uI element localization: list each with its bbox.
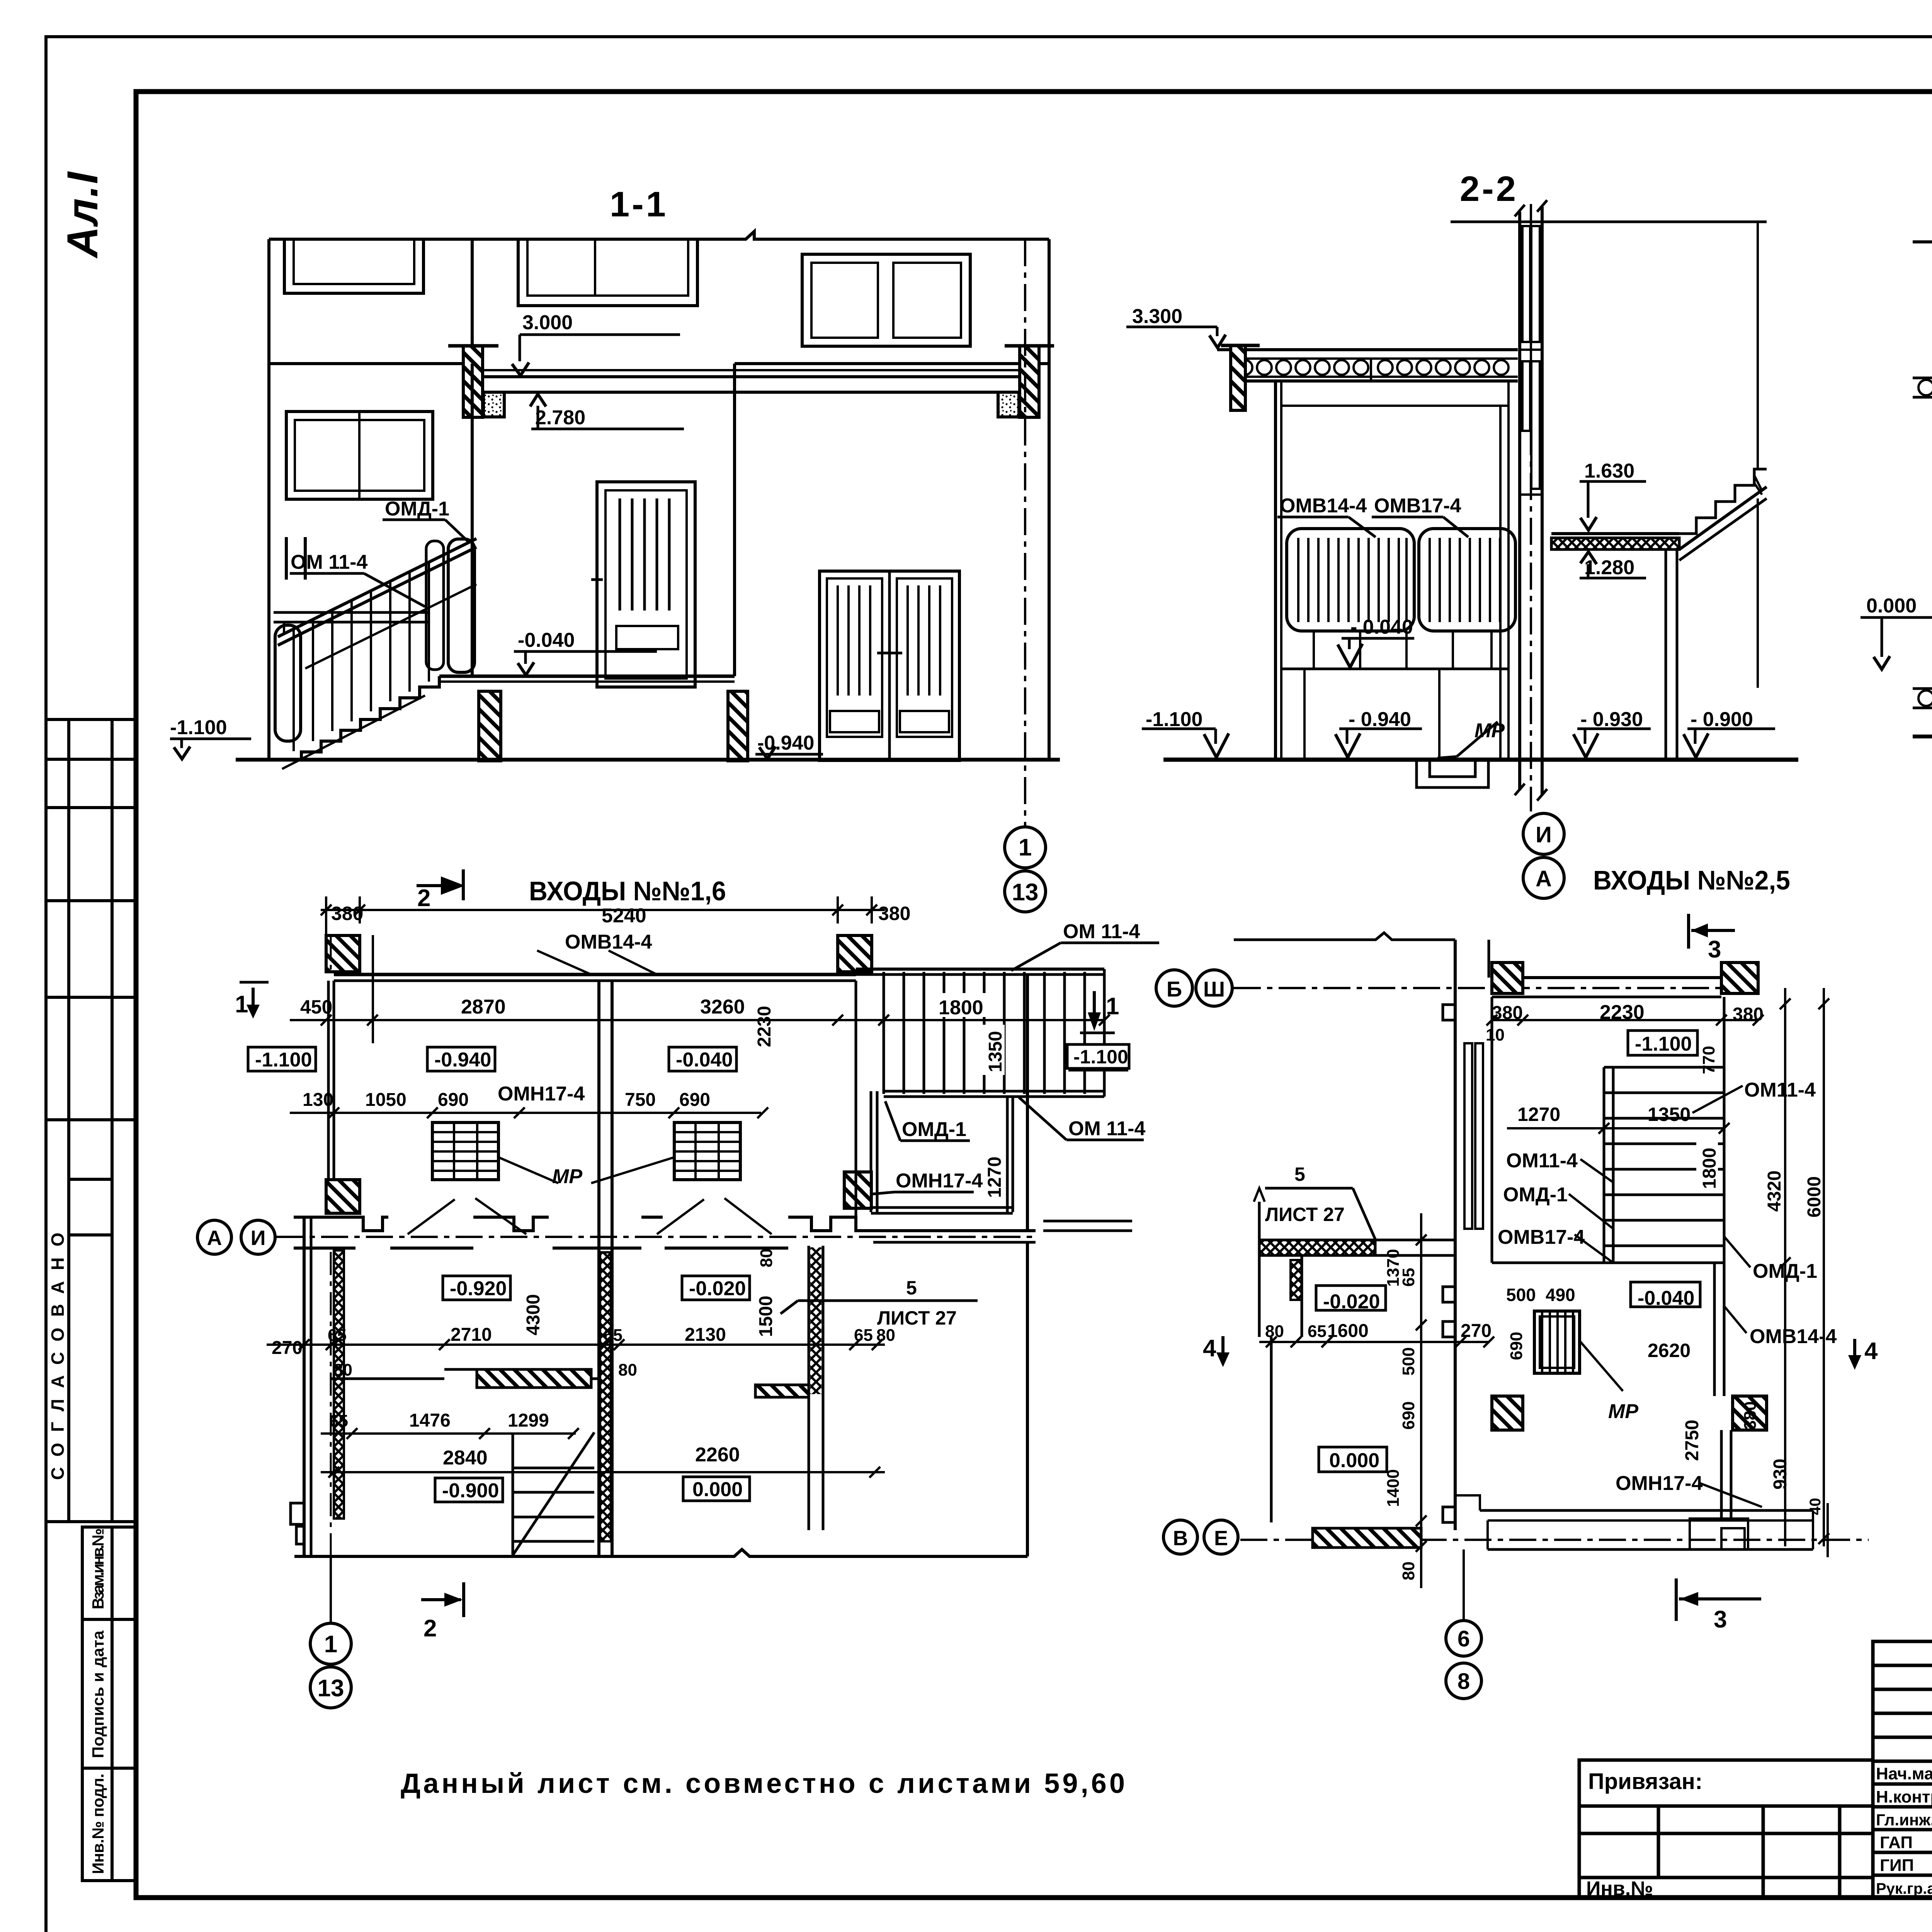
- callout 5/list27: [1265, 1187, 1353, 1190]
- dim -0.040: [1342, 637, 1414, 640]
- upper floor line: [1451, 221, 1767, 223]
- svg-text:ОМН17-4: ОМН17-4: [896, 1170, 983, 1192]
- svg-text:2230: 2230: [754, 1006, 775, 1047]
- central interior wall vertical: [597, 981, 600, 1556]
- upper-left window: [284, 239, 423, 293]
- svg-text:450: 450: [300, 996, 332, 1018]
- svg-text:1600: 1600: [1327, 1321, 1369, 1341]
- svg-text:6000: 6000: [1804, 1176, 1825, 1218]
- ground line: [236, 758, 1060, 762]
- svg-text:1.280: 1.280: [1584, 556, 1634, 579]
- svg-text:690: 690: [1507, 1332, 1526, 1360]
- svg-text:6: 6: [1458, 1626, 1470, 1651]
- svg-text:1299: 1299: [508, 1410, 549, 1431]
- svg-text:65: 65: [604, 1326, 622, 1345]
- svg-text:ЛИСТ 27: ЛИСТ 27: [877, 1307, 957, 1329]
- dim -1.100: [1142, 728, 1216, 730]
- axis 6/8 bottom: [1463, 1549, 1465, 1621]
- svg-text:Б: Б: [1167, 977, 1182, 1001]
- signatures table: [1873, 1641, 1932, 1898]
- entrance steps: [273, 676, 439, 760]
- building top line: [269, 231, 1049, 239]
- mid dim line 270/2710/2130: [267, 1344, 885, 1346]
- svg-text:1476: 1476: [409, 1410, 451, 1431]
- porch floor line: [1163, 758, 1798, 762]
- balusters: [293, 630, 295, 751]
- top boundary squiggle line: [1234, 933, 1455, 940]
- svg-text:ОМ 11-4: ОМ 11-4: [1063, 920, 1140, 943]
- svg-text:Данный лист см. совместно с ли: Данный лист см. совместно с листами 59,6…: [401, 1768, 1125, 1799]
- dim 1.280: [1580, 577, 1646, 580]
- svg-text:И: И: [1536, 822, 1552, 847]
- axis circle 13: [1005, 871, 1046, 912]
- svg-text:380: 380: [331, 903, 363, 924]
- left lower exterior wall: [303, 1217, 306, 1556]
- axis mark 1 top-left: [240, 981, 269, 984]
- svg-text:690: 690: [438, 1090, 469, 1110]
- svg-text:ОМД-1: ОМД-1: [902, 1118, 966, 1141]
- svg-text:ОМВ17-4: ОМВ17-4: [1498, 1226, 1585, 1248]
- svg-text:1400: 1400: [1384, 1469, 1403, 1507]
- svg-text:1270: 1270: [1517, 1104, 1560, 1125]
- left exterior wall: [327, 981, 330, 1213]
- callout line list27: [798, 1299, 978, 1302]
- svg-text:2260: 2260: [695, 1444, 740, 1466]
- axis circle 1: [1005, 827, 1046, 868]
- dim 1270/1350 line: [1507, 1127, 1724, 1129]
- svg-text:1: 1: [235, 991, 248, 1018]
- svg-text:770: 770: [1699, 1046, 1718, 1074]
- svg-text:-0.040: -0.040: [1638, 1287, 1694, 1310]
- svg-text:1050: 1050: [365, 1090, 406, 1110]
- svg-text:65: 65: [1308, 1322, 1327, 1341]
- label OM 11-4 leader: [290, 572, 364, 575]
- dim 1476/1299: [321, 1432, 576, 1435]
- dim 1.630: [1580, 480, 1646, 483]
- svg-text:А: А: [207, 1226, 222, 1250]
- hatched strip bottom-left: [1313, 1528, 1421, 1548]
- svg-text:930: 930: [1770, 1459, 1791, 1490]
- svg-text:МР: МР: [1608, 1400, 1638, 1423]
- floor band left: [269, 362, 472, 365]
- pривязан block: [1579, 1760, 1873, 1898]
- svg-text:380: 380: [1492, 1003, 1523, 1023]
- dim -0.940: [755, 753, 823, 756]
- hatched column right: [844, 1172, 871, 1208]
- label leaders: [1277, 516, 1349, 519]
- hatched column mid-left: [326, 1180, 360, 1213]
- top dim line 380/5240/380: [321, 909, 885, 911]
- svg-text:-1.100: -1.100: [255, 1049, 312, 1071]
- building top line: [1913, 234, 1932, 242]
- dim -0.900: [1687, 728, 1775, 730]
- svg-text:40: 40: [1807, 1498, 1824, 1515]
- svg-text:1800: 1800: [939, 997, 983, 1019]
- svg-text:500: 500: [1399, 1347, 1418, 1376]
- landing below flight: [870, 1091, 872, 1212]
- label OMD-1 leader: [383, 519, 445, 521]
- svg-text:2870: 2870: [461, 996, 506, 1018]
- svg-text:ГИП: ГИП: [1880, 1856, 1914, 1875]
- door swings: [408, 1198, 526, 1234]
- grille MP left: [432, 1122, 498, 1180]
- axis line: [1024, 239, 1026, 827]
- svg-text:-0.020: -0.020: [1323, 1291, 1380, 1313]
- cross-hatched floor strip left: [1259, 1240, 1375, 1255]
- svg-text:А: А: [1536, 866, 1552, 891]
- svg-text:3: 3: [1714, 1606, 1727, 1633]
- svg-text:4320: 4320: [1764, 1170, 1785, 1212]
- stair flight vertical: [1603, 1067, 1605, 1263]
- svg-text:65: 65: [1399, 1268, 1418, 1287]
- svg-text:2710: 2710: [451, 1325, 492, 1345]
- hollow core circles: [1238, 359, 1509, 381]
- svg-text:5240: 5240: [602, 905, 646, 927]
- svg-text:270: 270: [272, 1338, 303, 1358]
- svg-text:1-1: 1-1: [610, 185, 668, 224]
- svg-text:Е: Е: [1214, 1527, 1228, 1550]
- svg-text:2-2: 2-2: [1460, 169, 1518, 209]
- svg-text:МР: МР: [1475, 719, 1505, 742]
- leader lines top labels: [537, 951, 657, 975]
- svg-text:Взам.инв.№: Взам.инв.№: [89, 1528, 107, 1609]
- svg-text:- 0.900: - 0.900: [1690, 708, 1753, 731]
- ground line: [1913, 735, 1932, 738]
- dim 2840/2260: [321, 1471, 885, 1473]
- svg-text:80: 80: [618, 1361, 637, 1379]
- svg-text:2: 2: [423, 1615, 437, 1642]
- right building edge: [1048, 239, 1051, 760]
- svg-text:80: 80: [757, 1248, 776, 1267]
- svg-text:10: 10: [1486, 1026, 1505, 1044]
- section mark 2 near title: [417, 869, 463, 912]
- svg-text:-1.100: -1.100: [1146, 708, 1202, 731]
- dim -1.100 left: [170, 738, 251, 740]
- svg-text:- 0.940: - 0.940: [1349, 708, 1411, 731]
- svg-text:-0.940: -0.940: [757, 732, 814, 754]
- svg-text:690: 690: [1399, 1401, 1418, 1430]
- hollow core slab left: [1913, 377, 1932, 379]
- axis V/E circles: [1163, 1520, 1197, 1554]
- svg-text:СОГЛАСОВАНО: СОГЛАСОВАНО: [48, 1233, 68, 1480]
- svg-text:-0.940: -0.940: [434, 1049, 491, 1071]
- hatched column top-right: [838, 935, 872, 972]
- svg-text:3.300: 3.300: [1132, 305, 1182, 328]
- right level line -1.100: [1068, 1069, 1128, 1071]
- left stamp column upper part: [46, 718, 136, 721]
- svg-text:80: 80: [1265, 1322, 1284, 1341]
- left exterior wall vertical: [1454, 940, 1457, 1213]
- svg-text:80: 80: [333, 1361, 352, 1379]
- svg-text:65: 65: [328, 1326, 347, 1345]
- svg-text:80: 80: [1399, 1561, 1418, 1580]
- bottom cut line: [294, 1549, 1027, 1556]
- dim 0.000: [1861, 616, 1932, 619]
- axis A dash-dot: [276, 1236, 1036, 1238]
- axis mark 1 down right: [1093, 991, 1096, 1026]
- top dim ticks: [1492, 1019, 1758, 1021]
- svg-text:380: 380: [1733, 1004, 1764, 1025]
- svg-text:2.780: 2.780: [535, 406, 585, 429]
- svg-text:1: 1: [324, 1631, 337, 1658]
- svg-text:Н.контр.: Н.контр.: [1876, 1787, 1932, 1806]
- canopy slab with hollow cores: [1217, 348, 1518, 351]
- hatched columns mid: [1492, 1396, 1523, 1430]
- svg-text:ОМ11-4: ОМ11-4: [1744, 1079, 1816, 1101]
- landing railing horizontal: [274, 611, 429, 614]
- svg-text:-0.040: -0.040: [676, 1049, 733, 1071]
- svg-text:380: 380: [878, 903, 910, 924]
- svg-text:ЛИСТ 27: ЛИСТ 27: [1265, 1204, 1345, 1225]
- svg-text:ОМ11-4: ОМ11-4: [1506, 1150, 1578, 1172]
- svg-text:Рук.гр.ар: Рук.гр.ар: [1876, 1880, 1932, 1897]
- axis circle И: [1523, 813, 1564, 854]
- svg-text:490: 490: [1546, 1285, 1575, 1305]
- svg-text:5: 5: [906, 1277, 917, 1299]
- stair railing (inclined): [278, 539, 476, 637]
- svg-text:1270: 1270: [985, 1156, 1005, 1198]
- svg-text:Ал.I: Ал.I: [58, 171, 107, 259]
- svg-text:ГАП: ГАП: [1880, 1833, 1913, 1852]
- entrance bay walls: [471, 364, 474, 676]
- svg-text:1800: 1800: [1699, 1148, 1720, 1189]
- svg-text:13: 13: [318, 1675, 344, 1702]
- section 3 marks: [1687, 914, 1690, 949]
- upper stair flight treads: [884, 972, 1085, 1094]
- hatched column top-left: [326, 935, 360, 972]
- label leaders: [1692, 1086, 1743, 1113]
- grille MP right: [674, 1122, 740, 1180]
- svg-text:130: 130: [303, 1090, 333, 1110]
- dim -0.940: [1339, 728, 1422, 730]
- canopy bracket right: [1020, 346, 1039, 417]
- svg-text:270: 270: [1461, 1321, 1492, 1341]
- landing support post: [1665, 549, 1667, 759]
- svg-text:13: 13: [1012, 879, 1039, 906]
- svg-text:0.000: 0.000: [1329, 1449, 1379, 1472]
- svg-text:0.000: 0.000: [692, 1478, 743, 1501]
- single entrance door: [597, 482, 695, 687]
- svg-text:4300: 4300: [523, 1294, 544, 1335]
- svg-text:2: 2: [417, 885, 430, 912]
- svg-text:ОМ 11-4: ОМ 11-4: [291, 551, 367, 573]
- landing below stair: [1492, 1262, 1604, 1264]
- section mark 2 bottom: [462, 1582, 465, 1617]
- svg-text:-0.920: -0.920: [450, 1277, 507, 1300]
- central sectioned wall: [1518, 212, 1521, 790]
- right vertical dims: [1784, 988, 1786, 1546]
- svg-text:Ш: Ш: [1203, 977, 1225, 1001]
- svg-text:ОМД-1: ОМД-1: [1503, 1184, 1568, 1206]
- svg-text:ОМВ17-4: ОМВ17-4: [1374, 495, 1461, 517]
- hatched columns top: [1492, 963, 1523, 993]
- bottom wall with threshold: [1480, 1509, 1813, 1512]
- svg-text:И: И: [251, 1226, 266, 1250]
- svg-text:0.000: 0.000: [1866, 595, 1917, 617]
- platform pier left: [479, 691, 501, 761]
- svg-text:-0.040: -0.040: [518, 629, 575, 651]
- svg-text:ВХОДЫ №№2,5: ВХОДЫ №№2,5: [1593, 865, 1790, 895]
- svg-text:- 0.930: - 0.930: [1580, 708, 1643, 731]
- stair flight steps: [1679, 469, 1767, 534]
- svg-text:4: 4: [1864, 1338, 1878, 1364]
- dim line 130/1050/690: [290, 1112, 761, 1114]
- svg-text:ОМН17-4: ОМН17-4: [498, 1083, 585, 1105]
- top wall double line: [334, 973, 856, 976]
- svg-text:8: 8: [1458, 1669, 1470, 1694]
- dim -0.040: [514, 650, 657, 653]
- left stamp column lower block: [82, 1527, 136, 1881]
- canopy left bracket: [1231, 345, 1245, 410]
- fence panel OMB14-4: [1287, 529, 1414, 631]
- svg-text:ОМ 11-4: ОМ 11-4: [1068, 1117, 1145, 1140]
- svg-text:Гл.инж.м: Гл.инж.м: [1876, 1811, 1932, 1829]
- right wall verticals: [1723, 1263, 1726, 1396]
- dim line 450/2870/3260: [290, 1019, 889, 1021]
- svg-text:ОМН17-4: ОМН17-4: [1616, 1472, 1702, 1495]
- boxed levels: [248, 1047, 316, 1071]
- left wall mid verticals: [1491, 997, 1493, 1263]
- svg-text:500: 500: [1506, 1285, 1536, 1305]
- svg-text:1350: 1350: [1648, 1104, 1690, 1125]
- dim 3.000: [520, 333, 680, 336]
- svg-text:1500: 1500: [756, 1296, 776, 1337]
- dim 2.780: [531, 428, 684, 430]
- second xhatch wall right: [808, 1246, 810, 1530]
- svg-text:2620: 2620: [1648, 1340, 1690, 1361]
- svg-text:65: 65: [329, 1412, 348, 1430]
- svg-text:2840: 2840: [443, 1447, 488, 1469]
- wall edge left of entrance: [471, 239, 474, 364]
- svg-text:2750: 2750: [1682, 1420, 1702, 1461]
- svg-text:-0.900: -0.900: [442, 1480, 499, 1502]
- MP leader: [1457, 722, 1498, 757]
- hatched sill strip: [477, 1369, 591, 1388]
- axis circles A / I: [197, 1220, 231, 1254]
- MP leaders: [498, 1157, 558, 1183]
- svg-text:-1.100: -1.100: [170, 716, 227, 739]
- right landing walls: [1026, 975, 1029, 1231]
- svg-text:ОМВ14-4: ОМВ14-4: [1750, 1325, 1837, 1348]
- svg-text:380: 380: [1741, 1401, 1760, 1430]
- svg-text:Привязан:: Привязан:: [1588, 1769, 1702, 1794]
- svg-text:Инв.№: Инв.№: [1586, 1878, 1653, 1900]
- dim line y3473: [1259, 1341, 1489, 1343]
- svg-text:-1.100: -1.100: [1635, 1033, 1692, 1055]
- svg-text:1: 1: [1019, 834, 1032, 861]
- svg-text:ОМВ14-4: ОМВ14-4: [565, 931, 652, 953]
- foundation pad: [1417, 760, 1488, 787]
- svg-text:- 0.040: - 0.040: [1350, 616, 1413, 638]
- svg-text:МР: МР: [552, 1165, 582, 1188]
- svg-text:Инв.№ подл.: Инв.№ подл.: [89, 1774, 107, 1874]
- svg-text:2230: 2230: [1600, 1001, 1645, 1024]
- lower hollow core slab left: [1913, 687, 1932, 690]
- canopy slab: [475, 369, 1028, 371]
- svg-text:750: 750: [625, 1090, 656, 1110]
- axis line: [1530, 204, 1532, 811]
- upper-right window: [802, 254, 970, 346]
- porch posts: [1274, 381, 1277, 759]
- left vertical dim: [1420, 1213, 1422, 1588]
- svg-text:3.000: 3.000: [522, 311, 573, 334]
- floor band right: [735, 362, 1049, 365]
- left vertical dim line: [372, 935, 374, 1043]
- svg-text:5: 5: [1294, 1163, 1305, 1185]
- A-axis wall: [294, 1217, 388, 1231]
- svg-text:В: В: [1173, 1527, 1188, 1550]
- svg-text:-1.100: -1.100: [1073, 1046, 1128, 1068]
- left room boundary: [1258, 1202, 1261, 1240]
- section 4 marks: [1221, 1336, 1225, 1359]
- svg-text:3: 3: [1708, 936, 1721, 963]
- svg-text:65: 65: [854, 1326, 873, 1345]
- fence panel OMB17-4: [1419, 529, 1515, 631]
- svg-text:ОМД-1: ОМД-1: [1753, 1260, 1817, 1282]
- svg-text:ОМВ14-4: ОМВ14-4: [1280, 495, 1367, 517]
- svg-text:3260: 3260: [700, 996, 745, 1018]
- porch platform: [439, 675, 735, 678]
- svg-text:1.630: 1.630: [1584, 460, 1634, 482]
- canopy bracket left: [463, 346, 483, 417]
- svg-text:ОМД-1: ОМД-1: [385, 498, 449, 520]
- svg-text:1: 1: [1106, 993, 1119, 1020]
- mid-left window behind stairs: [286, 412, 433, 499]
- axis circle А: [1523, 857, 1564, 898]
- concrete pads under brackets: [483, 392, 504, 417]
- svg-text:ВХОДЫ №№1,6: ВХОДЫ №№1,6: [529, 876, 726, 906]
- svg-text:Подпись и дата: Подпись и дата: [89, 1630, 107, 1758]
- upper-middle window: [518, 239, 697, 306]
- left building edge: [267, 239, 270, 760]
- double entrance door: [820, 571, 959, 760]
- svg-text:1350: 1350: [985, 1031, 1006, 1072]
- wall jogs left: [1443, 1005, 1455, 1302]
- grille MP: [1534, 1311, 1580, 1373]
- svg-text:4: 4: [1203, 1335, 1216, 1362]
- svg-text:690: 690: [679, 1090, 710, 1110]
- dim 3.300: [1126, 326, 1202, 328]
- svg-text:2130: 2130: [685, 1325, 726, 1345]
- top wall of stairwell: [1492, 976, 1721, 979]
- central vertical wall lower: [1454, 1310, 1457, 1530]
- lower stair treads: [513, 1468, 594, 1541]
- stair landing right: [1551, 532, 1679, 535]
- boxed levels: [1628, 1031, 1697, 1055]
- dim line 1800 in flight: [884, 1019, 1104, 1021]
- fence posts to floor: [1313, 631, 1315, 669]
- svg-text:Нач.маст: Нач.маст: [1876, 1764, 1932, 1783]
- platform pier right: [728, 691, 748, 761]
- axis 1 bottom: [330, 935, 332, 974]
- dim -0.930: [1577, 728, 1651, 730]
- svg-text:-0.020: -0.020: [689, 1277, 746, 1300]
- gate panels OMD-1: [426, 541, 444, 670]
- axis B/Sh circles: [1156, 970, 1192, 1006]
- lower-left walls: [1270, 1337, 1273, 1522]
